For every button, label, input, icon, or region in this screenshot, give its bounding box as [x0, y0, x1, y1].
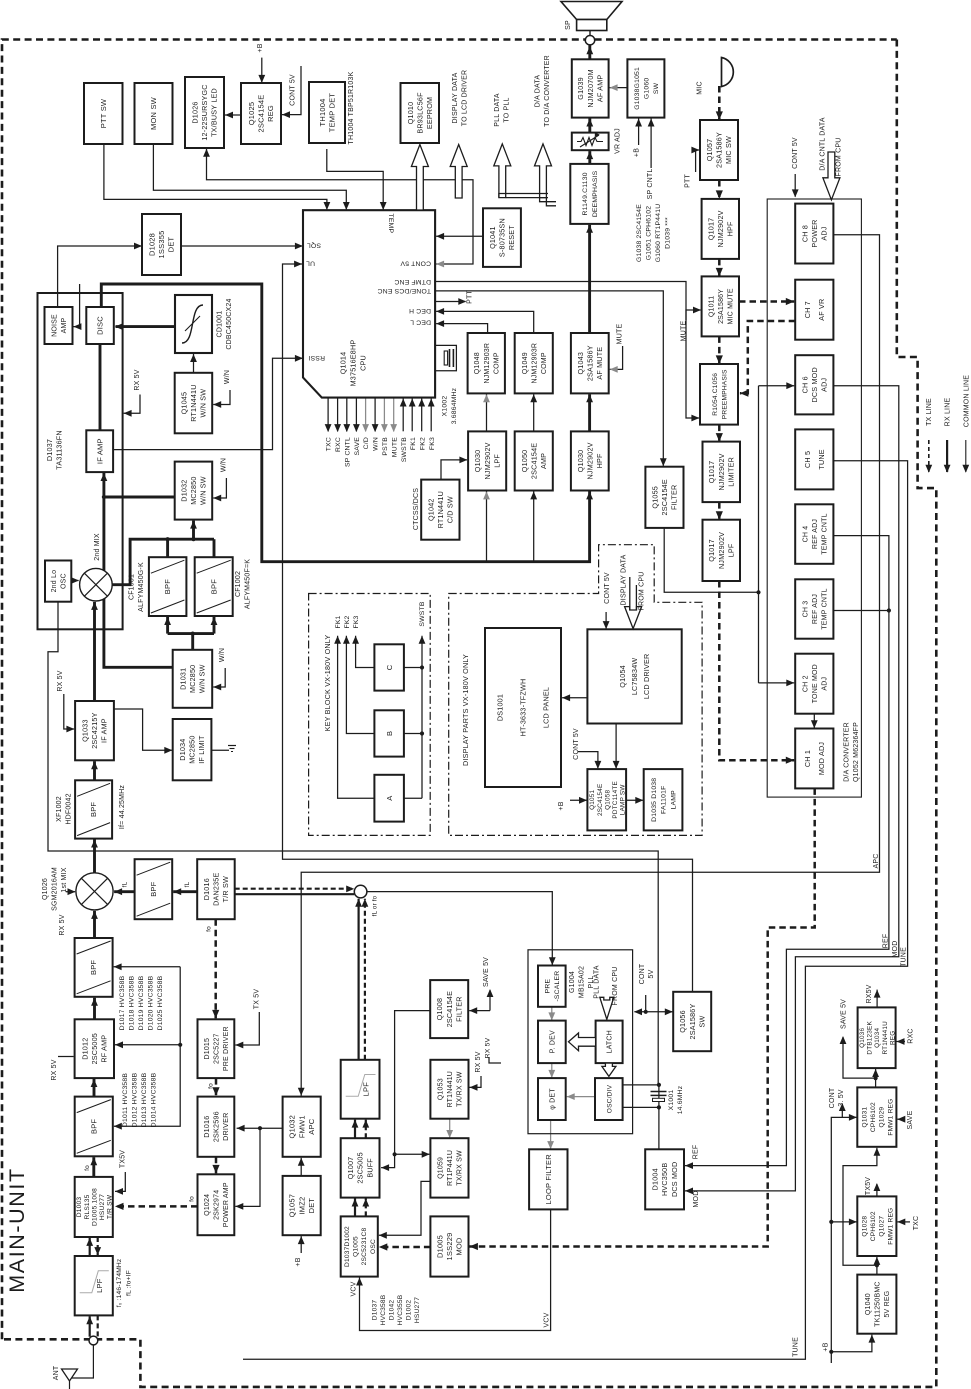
svg-text:MUTE: MUTE	[617, 324, 624, 345]
svg-text:COMP: COMP	[541, 352, 548, 374]
svg-text:Q1026: Q1026	[42, 878, 49, 900]
svg-text:D1025 HVC358B: D1025 HVC358B	[157, 975, 164, 1030]
svg-text:PTT: PTT	[685, 174, 692, 188]
svg-text:Q1049: Q1049	[522, 352, 529, 374]
svg-text:R1149.C1130: R1149.C1130	[582, 172, 589, 215]
svg-text:CH 1: CH 1	[803, 750, 812, 767]
svg-text:D1035 D1038: D1035 D1038	[651, 778, 658, 822]
svg-text:UL: UL	[306, 260, 315, 267]
svg-text:MB15A02: MB15A02	[579, 966, 586, 998]
svg-text:MUTE: MUTE	[391, 437, 398, 457]
svg-text:COMMON LINE: COMMON LINE	[964, 375, 971, 427]
svg-text:D1016: D1016	[202, 878, 211, 900]
svg-text:RX5V: RX5V	[866, 984, 873, 1003]
svg-text:HPF: HPF	[726, 221, 735, 236]
svg-text:SW: SW	[697, 1015, 706, 1027]
svg-text:CH 3: CH 3	[802, 601, 809, 618]
svg-text:LIMITER: LIMITER	[727, 457, 736, 487]
svg-text:RT1P441U: RT1P441U	[447, 1150, 454, 1186]
svg-text:DEEMPHASIS: DEEMPHASIS	[592, 170, 599, 217]
svg-text:BR93LC56F: BR93LC56F	[415, 92, 424, 134]
svg-text:FILTER: FILTER	[670, 485, 679, 510]
svg-text:2SC5005: 2SC5005	[90, 1033, 99, 1064]
svg-text:FMW1 REG: FMW1 REG	[887, 1099, 894, 1136]
svg-text:DEC H: DEC H	[409, 307, 431, 314]
svg-text:D1012: D1012	[80, 1038, 89, 1060]
svg-text:D1014 HVC358B: D1014 HVC358B	[151, 1072, 158, 1127]
svg-text:fL: fL	[121, 881, 128, 887]
svg-text:TH1004 TBP51R103K: TH1004 TBP51R103K	[348, 71, 355, 144]
svg-text:RX 5V: RX 5V	[51, 1059, 58, 1080]
svg-text:Q1025: Q1025	[247, 102, 256, 126]
svg-text:DAN235E: DAN235E	[212, 873, 221, 906]
svg-text:Q1048: Q1048	[474, 352, 481, 374]
svg-text:DISPLAY PARTS VX-180V ONLY: DISPLAY PARTS VX-180V ONLY	[461, 654, 470, 766]
svg-text:TX/BUSY LED: TX/BUSY LED	[210, 88, 219, 137]
svg-text:FA1101F: FA1101F	[661, 786, 668, 814]
svg-text:DISPLAY DATA: DISPLAY DATA	[621, 554, 628, 605]
svg-text:R1054.C1056: R1054.C1056	[712, 373, 719, 416]
svg-text:-SCALER: -SCALER	[554, 971, 561, 1002]
svg-text:KEY BLOCK VX-180V ONLY: KEY BLOCK VX-180V ONLY	[323, 635, 332, 732]
svg-text:OSC: OSC	[61, 573, 68, 589]
svg-text:G1060 RT1P441U: G1060 RT1P441U	[655, 204, 662, 263]
svg-text:PLL DATA: PLL DATA	[594, 965, 601, 999]
svg-text:2nd MIX: 2nd MIX	[94, 533, 101, 561]
svg-text:Q1010: Q1010	[406, 102, 415, 125]
svg-text:Q1051: Q1051	[589, 789, 596, 809]
svg-text:FILTER: FILTER	[454, 996, 463, 1021]
svg-text:REF ADJ: REF ADJ	[812, 594, 819, 624]
svg-text:CONT 5V: CONT 5V	[573, 728, 580, 760]
svg-text:G1004: G1004	[569, 971, 576, 993]
svg-text:2SC4154E: 2SC4154E	[597, 784, 604, 817]
svg-text:PTT SW: PTT SW	[99, 98, 108, 128]
svg-text:Q1008: Q1008	[435, 998, 444, 1021]
svg-text:D1037: D1037	[45, 439, 54, 461]
svg-text:Q1030: Q1030	[576, 450, 585, 473]
svg-text:Q1031: Q1031	[862, 1107, 869, 1128]
svg-text:Q1057: Q1057	[288, 1194, 297, 1218]
svg-text:BPF: BPF	[89, 1119, 98, 1134]
svg-text:G1039: G1039	[576, 77, 585, 100]
svg-text:CONT: CONT	[639, 963, 646, 984]
svg-text:RX 5V: RX 5V	[485, 1037, 492, 1058]
svg-text:SP: SP	[565, 20, 572, 30]
svg-text:M37516E8HP: M37516E8HP	[349, 340, 358, 387]
svg-text:FK3: FK3	[429, 437, 436, 450]
svg-text:FK1: FK1	[410, 437, 417, 450]
svg-text:RX 5V: RX 5V	[475, 1051, 482, 1072]
svg-text:NJM2070M: NJM2070M	[586, 69, 595, 107]
svg-text:RESET: RESET	[507, 225, 516, 250]
svg-text:LCD PANEL: LCD PANEL	[542, 687, 551, 728]
svg-text:12-22SURSYGC: 12-22SURSYGC	[200, 84, 209, 140]
svg-text:FMW1: FMW1	[297, 1115, 306, 1138]
svg-text:RX 5V: RX 5V	[134, 369, 141, 390]
svg-text:Q1055: Q1055	[650, 486, 659, 509]
svg-text:RF AMP: RF AMP	[100, 1035, 109, 1063]
svg-text:+B: +B	[823, 1342, 830, 1351]
svg-text:fo: fo	[84, 1165, 91, 1171]
svg-text:TEMP: TEMP	[387, 214, 394, 234]
svg-text:+B: +B	[558, 801, 565, 810]
svg-text:Q1059: Q1059	[437, 1157, 444, 1179]
svg-text:3. 5V: 3. 5V	[838, 1089, 845, 1106]
svg-text:AF AMP: AF AMP	[595, 75, 604, 103]
svg-text:SAVE: SAVE	[354, 437, 361, 456]
svg-text:IF AMP: IF AMP	[100, 718, 109, 743]
svg-text:PREEMPHASIS: PREEMPHASIS	[721, 369, 728, 419]
svg-text:5V: 5V	[648, 969, 655, 978]
svg-text:NJM2902V: NJM2902V	[717, 532, 726, 569]
svg-text:D1039 ***: D1039 ***	[665, 217, 672, 249]
svg-text:2SK2974: 2SK2974	[214, 1190, 221, 1220]
svg-text:FROM CPU: FROM CPU	[612, 967, 619, 1006]
svg-text:D1002: D1002	[406, 1300, 413, 1321]
svg-text:PRE DRIVER: PRE DRIVER	[223, 1026, 230, 1071]
svg-text:MOD: MOD	[892, 941, 899, 958]
svg-text:NJM12903R: NJM12903R	[531, 343, 538, 384]
svg-text:LAMP: LAMP	[670, 790, 677, 810]
svg-text:AF MUTE: AF MUTE	[595, 347, 604, 380]
svg-text:NJM2902V: NJM2902V	[717, 453, 726, 490]
svg-text:D1031: D1031	[178, 668, 187, 690]
svg-text:RT1N441U: RT1N441U	[447, 1071, 454, 1108]
svg-text:REF: REF	[883, 934, 890, 949]
svg-text:MUTE: MUTE	[681, 321, 688, 342]
svg-text:2SC4215Y: 2SC4215Y	[90, 712, 99, 748]
svg-text:LPF: LPF	[362, 1082, 371, 1097]
svg-text:CH 5: CH 5	[803, 451, 812, 468]
svg-text:ADJ: ADJ	[820, 378, 829, 392]
svg-text:ADJ: ADJ	[822, 677, 829, 691]
svg-text:TXC: TXC	[913, 1216, 920, 1231]
svg-text:CPH6102: CPH6102	[870, 1211, 877, 1241]
svg-text:CONT 5V: CONT 5V	[792, 137, 799, 169]
svg-text:Q1050: Q1050	[520, 450, 529, 473]
svg-text:fL :fo+IF: fL :fo+IF	[126, 1270, 133, 1296]
svg-text:fo: fo	[189, 1196, 196, 1202]
svg-text:W/N: W/N	[220, 458, 227, 472]
svg-text:RT1N441U: RT1N441U	[189, 384, 198, 421]
svg-text:DRIVER: DRIVER	[221, 1113, 230, 1141]
svg-text:3.6864MHz: 3.6864MHz	[451, 387, 458, 424]
svg-text:D1032: D1032	[179, 480, 188, 502]
svg-text:CTCSS/DCS: CTCSS/DCS	[413, 488, 420, 530]
svg-text:2SC4154E: 2SC4154E	[529, 443, 538, 479]
svg-text:T/R SW: T/R SW	[107, 1194, 114, 1219]
svg-text:D1037D1002: D1037D1002	[344, 1226, 351, 1267]
svg-text:AF VR: AF VR	[817, 299, 826, 321]
svg-text:SAVE: SAVE	[907, 1110, 914, 1129]
svg-text:X1002: X1002	[442, 396, 449, 417]
svg-text:Q1027: Q1027	[879, 1216, 886, 1237]
svg-text:D1042: D1042	[389, 1300, 396, 1321]
svg-text:DISPLAY DATA: DISPLAY DATA	[452, 72, 459, 123]
svg-text:TONE MOD: TONE MOD	[812, 664, 819, 703]
svg-text:X1001: X1001	[668, 1090, 675, 1111]
svg-text:W/N SW: W/N SW	[199, 389, 208, 418]
svg-text:RX 5V: RX 5V	[59, 914, 66, 935]
svg-text:CH 4: CH 4	[802, 526, 809, 543]
svg-text:TO LCD DRIVER: TO LCD DRIVER	[462, 70, 469, 127]
svg-text:LPF: LPF	[95, 1278, 104, 1293]
svg-text:NJM12903R: NJM12903R	[484, 343, 491, 384]
svg-text:HDF0042: HDF0042	[66, 793, 73, 824]
svg-text:TX5V: TX5V	[119, 1150, 126, 1168]
svg-text:SGM2016AM: SGM2016AM	[52, 867, 59, 911]
svg-text:DS1001: DS1001	[496, 694, 505, 721]
svg-text:RXC: RXC	[335, 437, 342, 452]
svg-text:2nd Lo: 2nd Lo	[51, 570, 58, 593]
svg-text:COMP: COMP	[494, 352, 501, 374]
svg-text:MON SW: MON SW	[149, 96, 158, 130]
svg-text:PLL DATA: PLL DATA	[494, 93, 501, 127]
svg-text:Q1033: Q1033	[81, 719, 90, 742]
svg-text:SWSTB: SWSTB	[419, 601, 426, 626]
svg-text:1st MIX: 1st MIX	[61, 867, 68, 892]
svg-text:CH 2: CH 2	[802, 675, 809, 692]
svg-text:TUNE: TUNE	[793, 1337, 800, 1357]
svg-text:DEC L: DEC L	[410, 318, 431, 325]
svg-text:FK2: FK2	[344, 615, 351, 628]
svg-text:TEMP DET: TEMP DET	[327, 93, 336, 133]
svg-text:Q1054: Q1054	[618, 665, 627, 688]
svg-text:2SC4154E: 2SC4154E	[660, 479, 669, 515]
svg-text:SP CNTL: SP CNTL	[647, 169, 654, 200]
svg-text:SQL: SQL	[307, 242, 321, 249]
svg-text:Q1056: Q1056	[678, 1010, 687, 1033]
svg-text:+B: +B	[295, 1257, 302, 1266]
svg-text:RX 5V: RX 5V	[57, 670, 64, 691]
svg-text:fo: fo	[207, 1083, 214, 1089]
svg-text:D1005: D1005	[435, 1235, 444, 1258]
svg-text:2SC4154E: 2SC4154E	[257, 95, 266, 133]
svg-text:RT1N441U: RT1N441U	[882, 1021, 889, 1055]
svg-text:MC2850: MC2850	[188, 735, 197, 763]
svg-text:2SA1586Y: 2SA1586Y	[585, 345, 594, 381]
svg-text:D1004: D1004	[651, 1168, 660, 1190]
svg-text:TO PLL: TO PLL	[504, 97, 511, 122]
svg-text:1SS355: 1SS355	[157, 231, 166, 259]
svg-text:MIC MUTE: MIC MUTE	[728, 288, 735, 324]
svg-text:G1060: G1060	[644, 78, 651, 99]
svg-text:MAIN-UNIT: MAIN-UNIT	[5, 1167, 29, 1292]
svg-text:IMZ2: IMZ2	[297, 1197, 306, 1215]
svg-text:PDTC114TE: PDTC114TE	[612, 781, 619, 819]
svg-text:2SA1586Y: 2SA1586Y	[688, 1004, 697, 1040]
svg-text:Q1053: Q1053	[437, 1078, 444, 1100]
svg-text:HSU277: HSU277	[414, 1297, 421, 1323]
svg-text:DET: DET	[307, 1198, 316, 1214]
svg-text:TX/RX SW: TX/RX SW	[457, 1150, 464, 1186]
svg-text:MOD ADJ: MOD ADJ	[817, 742, 826, 776]
svg-text:MOD: MOD	[455, 1237, 464, 1255]
svg-text:2SC4154E: 2SC4154E	[445, 991, 454, 1027]
svg-text:DISC: DISC	[96, 316, 105, 335]
svg-text:CONT 5V: CONT 5V	[400, 260, 431, 267]
svg-text:LC75834W: LC75834W	[630, 658, 639, 696]
svg-text:TX LINE: TX LINE	[926, 398, 933, 426]
svg-text:CONT: CONT	[829, 1087, 836, 1108]
svg-text:TXC: TXC	[326, 437, 333, 451]
svg-text:A: A	[385, 796, 394, 801]
svg-text:Q1011: Q1011	[708, 296, 715, 318]
svg-text:AMP: AMP	[539, 453, 548, 469]
svg-text:D1020 HVC358B: D1020 HVC358B	[148, 975, 155, 1030]
svg-text:D1026: D1026	[191, 101, 200, 123]
svg-text:SWSTB: SWSTB	[401, 437, 408, 462]
svg-text:HPF: HPF	[595, 453, 604, 468]
svg-text:Q1028: Q1028	[862, 1216, 869, 1237]
svg-text:APC: APC	[873, 854, 880, 869]
svg-text:Q1052 M62364FP: Q1052 M62364FP	[853, 722, 860, 782]
svg-text:Q1007: Q1007	[346, 1157, 355, 1180]
svg-text:BUFF: BUFF	[365, 1158, 374, 1178]
svg-text:MC2850: MC2850	[188, 665, 197, 693]
svg-text:W/N SW: W/N SW	[198, 664, 207, 693]
svg-text:FK1: FK1	[335, 615, 342, 628]
svg-text:D1011 HVC358B: D1011 HVC358B	[122, 1073, 129, 1128]
svg-text:POWER: POWER	[810, 219, 819, 247]
svg-text:TO D/A CONVERTER: TO D/A CONVERTER	[544, 55, 551, 127]
svg-text:MOD: MOD	[693, 1191, 700, 1208]
svg-text:PTT: PTT	[467, 290, 474, 304]
svg-text:EEPROM: EEPROM	[425, 97, 434, 129]
svg-text:Q1041: Q1041	[488, 226, 497, 249]
svg-text:CONT 5V: CONT 5V	[604, 572, 611, 604]
svg-text:RSSI: RSSI	[308, 354, 325, 361]
svg-text:D1003: D1003	[76, 1197, 83, 1218]
svg-text:G1038G1051: G1038G1051	[634, 67, 641, 110]
svg-text:BPF: BPF	[89, 802, 98, 817]
svg-text:DTB123EK: DTB123EK	[867, 1020, 874, 1054]
svg-text:D1005.1008: D1005.1008	[91, 1188, 98, 1226]
svg-text:ANT: ANT	[53, 1365, 60, 1380]
svg-text:Q1043: Q1043	[576, 352, 585, 375]
svg-text:BPF: BPF	[209, 579, 218, 594]
svg-text:TA31136FN: TA31136FN	[55, 430, 64, 469]
svg-text:HT-3633-TFZWH: HT-3633-TFZWH	[519, 679, 528, 737]
svg-text:fL: fL	[184, 881, 191, 887]
svg-text:ALFYM450F=K: ALFYM450F=K	[245, 559, 252, 609]
svg-text:LPF: LPF	[727, 543, 736, 557]
svg-text:ALFYM450G-K: ALFYM450G-K	[138, 562, 145, 612]
svg-text:Q1014: Q1014	[339, 352, 348, 375]
svg-text:φ DET: φ DET	[550, 1088, 557, 1110]
svg-text:NJM2902V: NJM2902V	[483, 442, 492, 479]
svg-text:PRE: PRE	[545, 979, 552, 994]
svg-text:Q1017: Q1017	[707, 461, 716, 484]
svg-text:FROM CPU: FROM CPU	[639, 572, 646, 611]
svg-text:BPF: BPF	[163, 579, 172, 594]
svg-text:SAVE 5V: SAVE 5V	[841, 999, 848, 1029]
svg-text:G1038 2SC4154E: G1038 2SC4154E	[636, 204, 643, 262]
svg-text:2SK2596: 2SK2596	[212, 1111, 221, 1142]
svg-text:D1018 HVC358B: D1018 HVC358B	[129, 975, 136, 1030]
svg-text:D1034: D1034	[178, 739, 187, 761]
svg-text:VCV: VCV	[351, 1281, 358, 1296]
svg-text:VCV: VCV	[544, 1312, 551, 1327]
svg-text:OSC: OSC	[370, 1239, 377, 1254]
svg-text:D1019 HVC358B: D1019 HVC358B	[138, 975, 145, 1030]
svg-text:HVC350B: HVC350B	[660, 1163, 669, 1196]
svg-text:AMP: AMP	[61, 317, 68, 333]
svg-text:NJM2902V: NJM2902V	[585, 442, 594, 479]
svg-text:D1016: D1016	[202, 1116, 211, 1138]
svg-text:2SC5005: 2SC5005	[356, 1152, 365, 1183]
svg-text:SP CNTL: SP CNTL	[344, 437, 351, 467]
svg-text:Q1030: Q1030	[473, 450, 482, 473]
svg-text:TH1004: TH1004	[318, 99, 327, 127]
svg-text:IF LIMIT: IF LIMIT	[197, 735, 206, 764]
svg-text:LPF: LPF	[492, 454, 501, 468]
svg-text:LAMP SW: LAMP SW	[620, 784, 627, 816]
svg-text:MC2850: MC2850	[189, 476, 198, 504]
svg-text:G1051 CPH6102: G1051 CPH6102	[646, 206, 653, 260]
svg-text:D/A DATA: D/A DATA	[535, 75, 542, 108]
svg-text:LATCH: LATCH	[607, 1030, 614, 1053]
svg-text:DCS MOD: DCS MOD	[670, 1162, 679, 1197]
svg-text:TX 5V: TX 5V	[253, 989, 260, 1010]
svg-text:RT1N441U: RT1N441U	[436, 491, 445, 528]
svg-text:W/N: W/N	[373, 437, 380, 451]
svg-text:+B: +B	[634, 148, 641, 157]
svg-text:LCD DRIVER: LCD DRIVER	[642, 654, 651, 700]
svg-text:HVC358B: HVC358B	[380, 1294, 387, 1325]
svg-text:FMW1 REG: FMW1 REG	[887, 1208, 894, 1245]
svg-text:CF1001: CF1001	[129, 574, 136, 600]
svg-text:TUNE: TUNE	[900, 947, 907, 967]
svg-text:Q1034: Q1034	[874, 1027, 881, 1047]
svg-text:RX LINE: RX LINE	[945, 398, 952, 427]
svg-text:T/R SW: T/R SW	[221, 876, 230, 902]
svg-text:CH 7: CH 7	[803, 301, 812, 318]
svg-text:D1037: D1037	[372, 1300, 379, 1321]
svg-text:If= 44.25MHz: If= 44.25MHz	[119, 785, 126, 830]
svg-text:Q1017: Q1017	[706, 218, 715, 241]
svg-text:CH 6: CH 6	[800, 376, 809, 393]
svg-text:C: C	[385, 664, 394, 670]
svg-text:f₀ :146-174MHz: f₀ :146-174MHz	[116, 1259, 123, 1308]
svg-text:TK11250BMC: TK11250BMC	[874, 1281, 881, 1326]
svg-text:Q1045: Q1045	[179, 392, 188, 415]
svg-text:APC: APC	[307, 1118, 316, 1134]
svg-text:Q1032: Q1032	[288, 1115, 297, 1139]
svg-text:2SA1586Y: 2SA1586Y	[715, 132, 724, 168]
svg-text:Q1029: Q1029	[879, 1107, 886, 1128]
svg-text:fo: fo	[205, 926, 212, 932]
svg-text:SAVE 5V: SAVE 5V	[483, 957, 490, 987]
svg-text:Q1024: Q1024	[204, 1194, 211, 1216]
svg-text:CDBC450CX24: CDBC450CX24	[226, 298, 233, 349]
svg-text:Q1057: Q1057	[705, 139, 714, 162]
svg-text:FROM CPU: FROM CPU	[836, 138, 843, 177]
svg-text:MIC SW: MIC SW	[724, 136, 733, 164]
svg-text:D1013 HVC358B: D1013 HVC358B	[141, 1072, 148, 1127]
svg-text:2SA1586Y: 2SA1586Y	[718, 289, 725, 324]
svg-text:REG: REG	[889, 1031, 896, 1045]
svg-text:BPF: BPF	[89, 960, 98, 975]
svg-text:CD1001: CD1001	[217, 311, 224, 338]
svg-text:RLS135: RLS135	[84, 1194, 91, 1219]
svg-text:D/A CNTL DATA: D/A CNTL DATA	[820, 117, 827, 171]
svg-text:C/D SW: C/D SW	[446, 496, 455, 523]
svg-text:TX5V: TX5V	[865, 1177, 872, 1195]
svg-text:2SC5227: 2SC5227	[214, 1033, 221, 1064]
svg-text:D/A CONVERTER: D/A CONVERTER	[844, 722, 851, 782]
